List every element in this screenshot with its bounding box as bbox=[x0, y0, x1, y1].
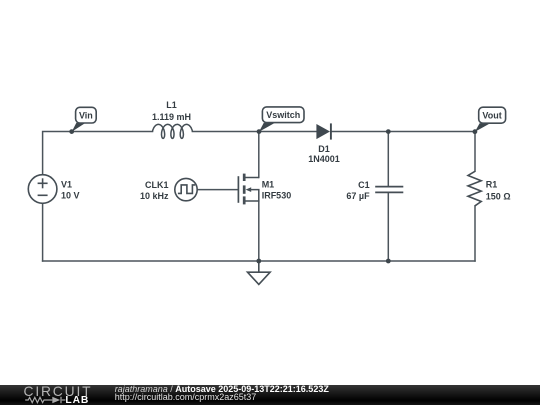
node flag Vout bbox=[475, 107, 506, 132]
wire right branch lower bbox=[474, 206, 476, 261]
svg-text:1N4001: 1N4001 bbox=[308, 154, 340, 164]
wire MOSFET source vertical bbox=[258, 201, 260, 261]
svg-text:10 V: 10 V bbox=[61, 191, 80, 201]
transistor M1 (NMOS) bbox=[238, 174, 258, 205]
transistor M1 body arrow bbox=[246, 187, 252, 192]
footer bar bbox=[0, 385, 540, 405]
wire left branch lower bbox=[42, 204, 44, 261]
svg-text:150 Ω: 150 Ω bbox=[486, 191, 511, 201]
svg-text:V1: V1 bbox=[61, 180, 72, 190]
wire bottom rail bbox=[43, 260, 475, 262]
footer logo resistor-diode glyph and LAB bbox=[0, 385, 110, 405]
wire C1 lower bbox=[387, 192, 389, 261]
svg-text:LAB: LAB bbox=[65, 394, 89, 405]
footer attribution text bbox=[115, 385, 329, 402]
svg-text:10 kHz: 10 kHz bbox=[140, 191, 169, 201]
wire MOSFET drain vertical bbox=[258, 132, 260, 178]
svg-text:Vin: Vin bbox=[79, 111, 93, 121]
svg-text:C1: C1 bbox=[358, 180, 370, 190]
svg-text:CLK1: CLK1 bbox=[145, 180, 169, 190]
svg-text:IRF530: IRF530 bbox=[262, 191, 292, 201]
voltage source V1 bbox=[28, 175, 57, 204]
wire CLK1 to gate bbox=[197, 189, 238, 191]
junction node source-ground bbox=[256, 259, 261, 264]
diode D1 bbox=[316, 124, 330, 139]
clock source CLK1 bbox=[175, 178, 197, 200]
junction node C1 bottom bbox=[386, 259, 391, 264]
capacitor C1 bbox=[375, 187, 403, 193]
junction node at Vin tap bbox=[69, 129, 74, 134]
junction node D1-C1 bbox=[386, 129, 391, 134]
junction node Vswitch bbox=[257, 129, 262, 134]
wire top rail left segment bbox=[43, 132, 153, 175]
ground bbox=[248, 261, 271, 284]
junction node Vout corner bbox=[473, 129, 478, 134]
svg-text:D1: D1 bbox=[318, 144, 330, 154]
wire top rail right segment bbox=[331, 132, 475, 172]
svg-text:1.119 mH: 1.119 mH bbox=[152, 112, 191, 122]
svg-text:M1: M1 bbox=[262, 180, 275, 190]
node flag Vswitch bbox=[259, 107, 304, 132]
footer logo CIRCUIT bbox=[24, 384, 93, 399]
svg-text:R1: R1 bbox=[486, 180, 498, 190]
svg-text:L1: L1 bbox=[166, 100, 177, 110]
svg-text:67 µF: 67 µF bbox=[346, 191, 370, 201]
resistor R1 bbox=[468, 171, 481, 206]
node flag Vin bbox=[72, 107, 97, 132]
svg-text:Vswitch: Vswitch bbox=[266, 110, 300, 120]
wire C1 upper bbox=[387, 132, 389, 187]
wire top rail middle segment bbox=[192, 131, 316, 133]
svg-text:Vout: Vout bbox=[482, 111, 501, 121]
inductor L1 bbox=[153, 124, 193, 138]
